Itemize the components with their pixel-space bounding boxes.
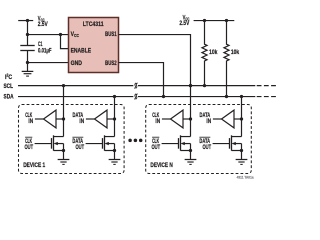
junction bus / DEVICE N CLK node [189,84,192,87]
IC U1 LTC4311 [69,18,119,73]
svg-text:OUT: OUT [203,144,212,151]
label CLK OUT (DEVICE 1) [25,137,34,151]
bus break mark on SCL [133,82,138,89]
resistor R2 10k (SDA pull-up) [224,21,229,97]
buffer CLK IN (DEVICE 1) [44,110,57,128]
net label VCC 2.5V (left) [38,15,48,28]
ground (DEVICE N DATA FET) [236,160,248,165]
wire BUS1 to SCL [119,35,191,86]
wire CLK node vertical (bus to DEVICE 1 CLK) [63,86,65,137]
wire DATA node vertical (bus to DEVICE 1 DATA) [114,97,116,137]
net label VCC 2.5V (right) [179,15,189,28]
junction R2 / SDA [225,95,228,98]
junction BUS1 / SCL [189,84,192,87]
wire CLK node vertical (bus to DEVICE N CLK) [190,86,192,137]
svg-text:ENABLE: ENABLE [71,48,92,55]
buffer DATA IN (DEVICE 1) [95,110,108,128]
junction FET source / ground (CLK, DEVICE 1) [62,149,65,152]
wire CLK IN to buffer output [35,118,44,120]
junction buffer / CLK node [62,117,65,120]
transistor CLK OUT FET (DEVICE 1) [52,135,64,159]
junction ENABLE tie to VCC wire [59,33,62,36]
svg-text:10k: 10k [231,49,239,56]
wire ENABLE tie (VCC to ENABLE pin) [61,35,69,49]
wire DATA OUT to FET gate [213,143,230,145]
svg-text:OUT: OUT [152,144,161,151]
wire SDA dashed continuation [257,96,278,98]
junction FET source / ground (DATA, DEVICE N) [240,149,243,152]
resistor R1 10k (SCL pull-up) [202,21,207,86]
label CLK OUT (DEVICE N) [152,137,161,151]
ground (DEVICE 1 CLK FET) [58,160,70,165]
svg-text:OUT: OUT [76,144,85,151]
svg-text:LTC4311: LTC4311 [83,21,104,28]
wire VCC vertical down to C1 [27,21,29,46]
device box DEVICE N [146,105,252,174]
junction buffer / DATA node [113,117,116,120]
junction BUS2 / SDA [162,95,165,98]
wire buffer input to CLK node [183,118,191,120]
junction bus / DEVICE N DATA node [240,95,243,98]
svg-text:2.5V: 2.5V [38,21,48,28]
transistor CLK OUT FET (DEVICE N) [179,135,191,159]
junction VCC vertical / VCC pin wire [26,33,29,36]
wire CLK OUT to FET gate [162,143,179,145]
wire CLK IN to buffer output [162,118,171,120]
svg-text:BUS2: BUS2 [105,60,117,67]
label DATA OUT (DEVICE 1) [72,137,84,151]
junction buffer / DATA node [240,117,243,120]
wire buffer input to DATA node [107,118,115,120]
junction R1 / SCL [203,84,206,87]
junction FET source / ground (DATA, DEVICE 1) [113,149,116,152]
ellipsis more devices [128,139,142,143]
wire DATA IN to buffer output [213,118,222,120]
transistor DATA OUT FET (DEVICE 1) [103,135,115,159]
wire SDA bus [18,96,255,98]
svg-text:4311 TA01a: 4311 TA01a [237,176,254,180]
svg-text:BUS1: BUS1 [105,31,117,38]
label CLK IN (DEVICE N) [152,112,160,125]
wire DATA node vertical (bus to DEVICE N DATA) [241,97,243,137]
label C1 0.01uF [38,41,52,55]
junction rail / R2 [225,19,228,22]
junction FET source / ground (CLK, DEVICE N) [189,149,192,152]
label DATA IN (DEVICE 1) [73,112,85,125]
svg-text:IN: IN [28,118,33,125]
wire DATA OUT to FET gate [86,143,103,145]
device box DEVICE 1 [19,105,125,174]
bus break mark on SDA [133,93,138,100]
wire buffer input to CLK node [56,118,64,120]
label DATA IN (DEVICE N) [200,112,212,125]
wire VCC node to LTC4311 VCC pin [28,34,69,36]
svg-text:SCL: SCL [4,83,14,90]
transistor DATA OUT FET (DEVICE N) [230,135,242,159]
svg-text:IN: IN [79,118,84,125]
wire buffer input to DATA node [234,118,242,120]
svg-text:DEVICE N: DEVICE N [150,162,172,169]
svg-text:IN: IN [155,118,160,125]
label CLK IN (DEVICE 1) [25,112,33,125]
junction buffer / CLK node [189,117,192,120]
svg-text:DEVICE 1: DEVICE 1 [23,162,45,169]
junction rail / R1 [203,19,206,22]
wire CLK OUT to FET gate [35,143,52,145]
junction bus / DEVICE 1 CLK node [62,84,65,87]
capacitor C1 [20,46,34,63]
svg-text:OUT: OUT [25,144,34,151]
power rail VCC (pull-ups) [194,20,235,22]
svg-text:I2C: I2C [5,72,12,80]
ground (DEVICE 1 DATA FET) [109,160,121,165]
junction VCC tick / vertical [26,19,29,22]
junction bus / DEVICE 1 DATA node [113,95,116,98]
wire SCL dashed continuation [257,85,278,87]
svg-text:0.01µF: 0.01µF [38,48,52,55]
svg-text:10k: 10k [209,49,217,56]
power rail VCC 2.5V (left supply tick) [18,20,33,22]
wire BUS2 to SDA [119,63,164,97]
label DATA OUT (DEVICE N) [199,137,211,151]
ground (DEVICE N CLK FET) [185,160,197,165]
ground (left, under C1) [22,63,34,77]
wire SCL bus [18,85,255,87]
svg-text:2.5V: 2.5V [179,20,189,27]
wire LTC4311 GND pin to ground [28,62,69,64]
junction C1 / GND wire [26,61,29,64]
svg-text:IN: IN [206,118,211,125]
buffer CLK IN (DEVICE N) [171,110,184,128]
svg-text:GND: GND [71,60,82,67]
buffer DATA IN (DEVICE N) [222,110,235,128]
svg-text:SDA: SDA [4,94,14,101]
wire DATA IN to buffer output [86,118,95,120]
